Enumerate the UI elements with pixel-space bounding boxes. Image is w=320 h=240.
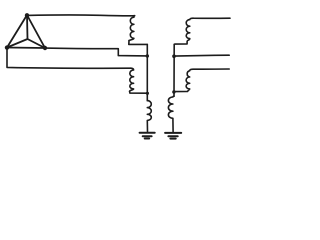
wire L1 bottom to mid vertical: [129, 41, 148, 45]
wire right vertical: [173, 44, 175, 96]
junction dot right: [172, 54, 176, 58]
wire phase A top: [27, 14, 135, 17]
delta source triangle: [7, 15, 45, 48]
node B (bottom-left vertex dot): [5, 45, 9, 49]
ground symbol mid: [140, 133, 155, 139]
wire phase B: [45, 48, 147, 56]
secondary winding L5: [174, 69, 229, 92]
node C (bottom-right vertex dot): [43, 46, 47, 50]
wire mid vertical: [146, 44, 148, 100]
grounding winding L3: [147, 101, 151, 132]
grounding winding L6: [168, 96, 174, 132]
junction dot right lower: [172, 90, 175, 93]
junction dot mid lower: [146, 92, 149, 95]
wire L2 bottom to mid vertical: [130, 91, 148, 93]
node A (top vertex dot): [25, 13, 29, 17]
ground symbol right: [165, 133, 181, 139]
wire phase C: [7, 48, 131, 69]
secondary winding L4: [174, 18, 230, 44]
wire secondary mid out: [174, 54, 229, 57]
primary winding L1: [129, 16, 135, 41]
primary winding L2: [130, 68, 134, 91]
junction dot mid: [146, 54, 149, 57]
